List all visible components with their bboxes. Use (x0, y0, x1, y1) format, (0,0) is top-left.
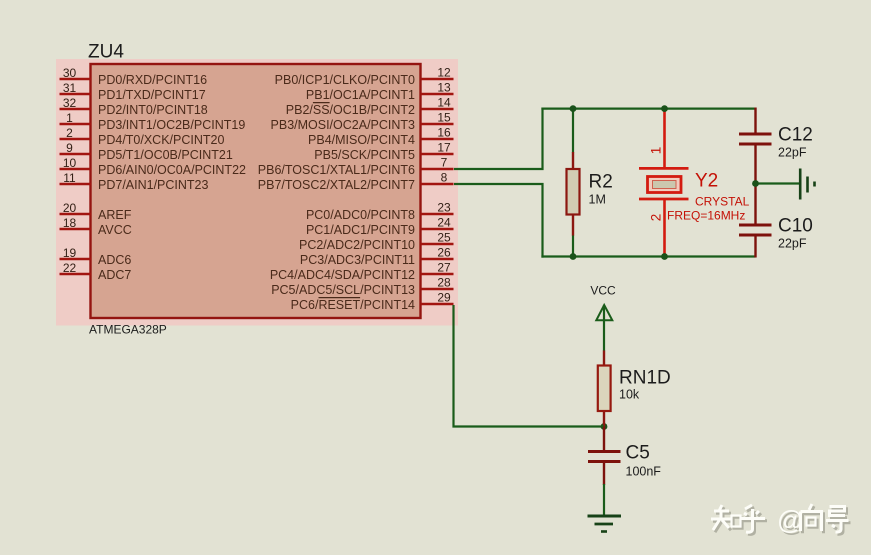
resistor RN1D body (598, 366, 611, 412)
svg-text:CRYSTAL: CRYSTAL (695, 195, 750, 209)
watermark Zhihu @xiangdao (713, 506, 851, 537)
pin 2 (PD4/T0/XCK/PCINT20) (60, 126, 225, 147)
pin 14 (PB2/SS/OC1B/PCINT2) (286, 96, 454, 118)
svg-text:PB0/ICP1/CLKO/PCINT0: PB0/ICP1/CLKO/PCINT0 (275, 73, 415, 87)
wire pin7 (XTAL1) to top rail (454, 108, 543, 170)
svg-text:R2: R2 (589, 172, 613, 193)
wire pin8 (XTAL2) to bottom rail (454, 184, 543, 258)
svg-text:10: 10 (63, 156, 77, 170)
svg-text:ADC6: ADC6 (98, 253, 131, 267)
capacitor C10 bottom pin (754, 236, 756, 258)
svg-text:7: 7 (441, 156, 448, 170)
svg-text:RN1D: RN1D (619, 368, 671, 389)
crystal Y2 bottom electrode plate (639, 198, 689, 201)
pin 7 (PB6/TOSC1/XTAL1/PCINT6) (258, 156, 454, 178)
svg-text:29: 29 (437, 291, 451, 305)
svg-text:22pF: 22pF (778, 237, 807, 251)
pin 27 (PC4/ADC4/SDA/PCINT12) (270, 261, 454, 283)
pin 12 (PB0/ICP1/CLKO/PCINT0) (275, 66, 454, 88)
ground (sideways) at crystal mid node (800, 169, 814, 200)
junction dot C12/C10/ground mid (752, 180, 759, 187)
svg-text:100nF: 100nF (626, 465, 662, 479)
pin 18 (AVCC) (60, 216, 132, 237)
pin 28 (PC5/ADC5/SCL/PCINT13) (271, 276, 453, 298)
junction dot RESET node (601, 423, 608, 430)
svg-text:PD5/T1/OC0B/PCINT21: PD5/T1/OC0B/PCINT21 (98, 148, 233, 162)
resistor R2 body (567, 169, 580, 215)
pin 17 (PB5/SCK/PCINT5) (314, 141, 453, 163)
capacitor C5 bottom pin (603, 463, 605, 486)
wire bottom rail (541, 255, 755, 257)
pin 15 (PB3/MOSI/OC2A/PCINT3) (271, 111, 454, 133)
svg-text:PD2/INT0/PCINT18: PD2/INT0/PCINT18 (98, 103, 208, 117)
svg-text:22: 22 (63, 261, 77, 275)
svg-text:ADC7: ADC7 (98, 268, 131, 282)
svg-text:PD3/INT1/OC2B/PCINT19: PD3/INT1/OC2B/PCINT19 (98, 118, 245, 132)
capacitor C10 top pin (754, 183, 756, 224)
pin 24 (PC1/ADC1/PCINT9) (306, 216, 454, 238)
svg-text:22pF: 22pF (778, 146, 807, 160)
svg-text:31: 31 (63, 81, 77, 95)
pin 16 (PB4/MISO/PCINT4) (308, 126, 453, 148)
wire RESET node vertical from pin29 (454, 305, 605, 427)
svg-text:PB2/SS/OC1B/PCINT2: PB2/SS/OC1B/PCINT2 (286, 103, 415, 117)
svg-text:PB3/MOSI/OC2A/PCINT3: PB3/MOSI/OC2A/PCINT3 (271, 118, 416, 132)
pin 26 (PC3/ADC3/PCINT11) (300, 246, 454, 268)
crystal Y2 top pin (663, 109, 666, 168)
svg-text:26: 26 (437, 246, 451, 260)
pin 8 (PB7/TOSC2/XTAL2/PCINT7) (258, 171, 454, 193)
junction dot top rail / R2 (570, 105, 577, 112)
svg-text:ATMEGA328P: ATMEGA328P (89, 323, 167, 337)
capacitor C5 top pin (603, 427, 605, 451)
svg-text:18: 18 (63, 216, 77, 230)
svg-text:AREF: AREF (98, 208, 132, 222)
svg-text:13: 13 (437, 81, 451, 95)
IC U1 selection highlight box (56, 59, 458, 326)
pin 10 (PD6/AIN0/OC0A/PCINT22) (60, 156, 247, 177)
capacitor C5 plates (588, 450, 621, 453)
pin 31 (PD1/TXD/PCINT17) (60, 81, 206, 102)
svg-text:16: 16 (437, 126, 451, 140)
ground below C5 (588, 516, 622, 532)
svg-text:PD1/TXD/PCINT17: PD1/TXD/PCINT17 (98, 88, 206, 102)
pin 11 (PD7/AIN1/PCINT23) (60, 171, 209, 192)
wire R2 bottom (572, 235, 574, 257)
svg-text:PC2/ADC2/PCINT10: PC2/ADC2/PCINT10 (299, 238, 415, 252)
svg-text:ZU4: ZU4 (88, 42, 124, 63)
svg-text:PD0/RXD/PCINT16: PD0/RXD/PCINT16 (98, 73, 207, 87)
svg-text:AVCC: AVCC (98, 223, 132, 237)
svg-text:C5: C5 (626, 443, 650, 464)
crystal Y2 bottom pin (663, 200, 666, 257)
svg-text:30: 30 (63, 66, 77, 80)
svg-text:1: 1 (649, 147, 664, 155)
svg-text:PC6/RESET/PCINT14: PC6/RESET/PCINT14 (291, 298, 415, 312)
wire mid node to ground (756, 182, 800, 184)
svg-text:20: 20 (63, 201, 77, 215)
pin 32 (PD2/INT0/PCINT18) (60, 96, 208, 117)
svg-text:2: 2 (649, 214, 664, 222)
pin 19 (ADC6) (60, 246, 132, 267)
wire C5 to ground (603, 484, 605, 516)
svg-text:PC5/ADC5/SCL/PCINT13: PC5/ADC5/SCL/PCINT13 (271, 283, 415, 297)
svg-text:17: 17 (437, 141, 451, 155)
svg-text:PD4/T0/XCK/PCINT20: PD4/T0/XCK/PCINT20 (98, 133, 224, 147)
svg-text:14: 14 (437, 96, 451, 110)
svg-text:VCC: VCC (590, 284, 616, 298)
svg-text:1M: 1M (589, 193, 606, 207)
power symbol VCC arrow (596, 305, 612, 320)
pin 13 (PB1/OC1A/PCINT1) (306, 81, 454, 103)
svg-text:19: 19 (63, 246, 77, 260)
svg-text:C10: C10 (778, 216, 813, 237)
pin 1 (PD3/INT1/OC2B/PCINT19) (60, 111, 246, 132)
svg-text:25: 25 (437, 231, 451, 245)
svg-text:32: 32 (63, 96, 77, 110)
capacitor C12 plates (739, 133, 772, 136)
svg-text:1: 1 (66, 111, 73, 125)
svg-text:11: 11 (63, 171, 76, 185)
svg-text:24: 24 (437, 216, 451, 230)
junction dot bottom rail / Y2 (661, 253, 668, 260)
svg-text:PD6/AIN0/OC0A/PCINT22: PD6/AIN0/OC0A/PCINT22 (98, 163, 246, 177)
svg-text:PB5/SCK/PCINT5: PB5/SCK/PCINT5 (314, 148, 415, 162)
svg-text:C12: C12 (778, 125, 813, 146)
wire top rail (541, 107, 755, 109)
pin 20 (AREF) (60, 201, 132, 222)
svg-text:FREQ=16MHz: FREQ=16MHz (667, 209, 745, 223)
pin 9 (PD5/T1/OC0B/PCINT21) (60, 141, 233, 162)
svg-text:PB7/TOSC2/XTAL2/PCINT7: PB7/TOSC2/XTAL2/PCINT7 (258, 178, 415, 192)
pin 22 (ADC7) (60, 261, 132, 282)
junction dot bottom rail / R2 (570, 253, 577, 260)
svg-text:Y2: Y2 (695, 171, 718, 192)
svg-text:12: 12 (437, 66, 451, 80)
svg-text:PC0/ADC0/PCINT8: PC0/ADC0/PCINT8 (306, 208, 415, 222)
pin 23 (PC0/ADC0/PCINT8) (306, 201, 454, 223)
svg-text:9: 9 (66, 141, 73, 155)
svg-text:PC4/ADC4/SDA/PCINT12: PC4/ADC4/SDA/PCINT12 (270, 268, 415, 282)
svg-text:2: 2 (66, 126, 73, 140)
capacitor C12 top pin (754, 108, 756, 134)
svg-text:15: 15 (437, 111, 451, 125)
svg-text:10k: 10k (619, 388, 640, 402)
pin 30 (PD0/RXD/PCINT16) (60, 66, 208, 87)
svg-text:PD7/AIN1/PCINT23: PD7/AIN1/PCINT23 (98, 178, 209, 192)
svg-text:PC1/ADC1/PCINT9: PC1/ADC1/PCINT9 (306, 223, 415, 237)
crystal Y2 top electrode plate (639, 167, 689, 170)
svg-text:PB1/OC1A/PCINT1: PB1/OC1A/PCINT1 (306, 88, 415, 102)
resistor RN1D pins (603, 351, 605, 367)
crystal Y2 body (648, 177, 682, 193)
capacitor C12 bottom pin (754, 145, 756, 184)
svg-text:28: 28 (437, 276, 451, 290)
pin 25 (PC2/ADC2/PCINT10) (299, 231, 454, 253)
wire VCC to RN1D (603, 305, 605, 351)
capacitor C10 plates (739, 224, 772, 227)
svg-text:27: 27 (437, 261, 451, 275)
svg-text:23: 23 (437, 201, 451, 215)
svg-text:8: 8 (441, 171, 448, 185)
junction dot top rail / Y2 (661, 105, 668, 112)
resistor R2 pins (572, 152, 574, 170)
wire R2 top (572, 109, 574, 153)
svg-text:PB4/MISO/PCINT4: PB4/MISO/PCINT4 (308, 133, 415, 147)
svg-text:PC3/ADC3/PCINT11: PC3/ADC3/PCINT11 (300, 253, 415, 267)
svg-text:PB6/TOSC1/XTAL1/PCINT6: PB6/TOSC1/XTAL1/PCINT6 (258, 163, 415, 177)
IC ZU4 body ATMEGA328P (91, 64, 421, 318)
pin 29 (PC6/RESET/PCINT14) (291, 291, 454, 313)
